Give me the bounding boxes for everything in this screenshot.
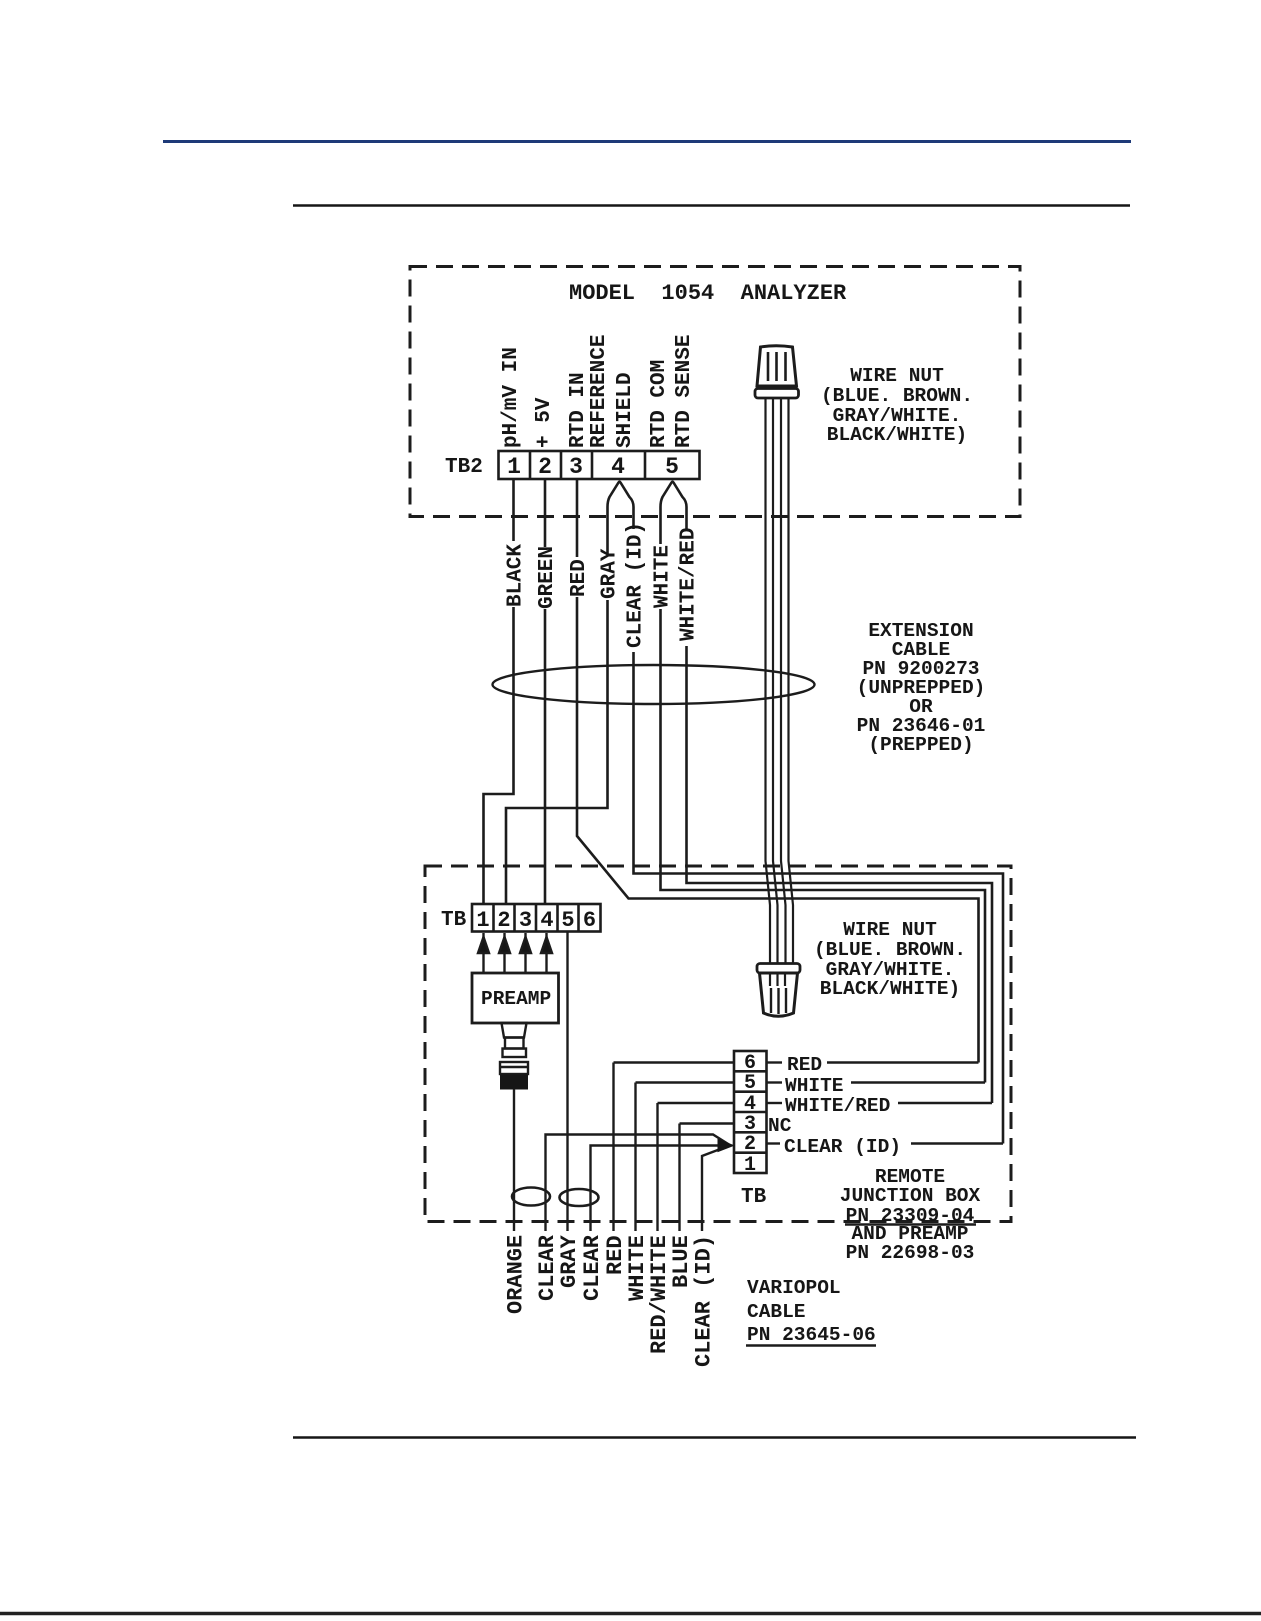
svg-text:(PREPPED): (PREPPED) [868, 734, 973, 756]
wire nut 2 text [814, 919, 966, 1000]
svg-text:TB: TB [741, 1186, 767, 1209]
svg-text:GRAY: GRAY [599, 548, 622, 599]
top blue rule [163, 140, 1131, 143]
underline PN 23645-06 [746, 1344, 876, 1346]
shield ellipse 1 [512, 1188, 550, 1206]
wire RED from TB2-3 [576, 479, 579, 557]
wire nut 2 (inverted) [757, 964, 800, 1017]
wire BLACK from TB2-1 [512, 479, 515, 541]
svg-text:3: 3 [519, 908, 532, 933]
top black rule [293, 204, 1130, 207]
svg-text:JUNCTION BOX: JUNCTION BOX [840, 1185, 981, 1207]
svg-text:RED: RED [787, 1054, 822, 1076]
wire GRAY [506, 600, 608, 904]
shield ellipse 2 [560, 1189, 599, 1206]
remote junction box text [840, 1166, 981, 1264]
svg-text:PN 22698-03: PN 22698-03 [846, 1242, 975, 1264]
TB2 pin numbers [507, 454, 679, 480]
row WHITE/RED (pin 4) [658, 1103, 993, 1231]
wires [484, 479, 1004, 1144]
row RED (pin 6) [614, 1063, 979, 1232]
svg-text:+ 5V: + 5V [533, 397, 556, 448]
svg-text:GRAY: GRAY [557, 1234, 582, 1288]
svg-text:ORANGE: ORANGE [504, 1235, 529, 1314]
terminal block TB2 [499, 451, 700, 479]
svg-text:GREEN: GREEN [536, 546, 559, 609]
svg-text:6: 6 [583, 908, 596, 933]
svg-text:1: 1 [476, 908, 489, 933]
svg-text:WHITE/RED: WHITE/RED [678, 528, 701, 641]
svg-text:5: 5 [665, 454, 679, 480]
junction box dashed border [425, 866, 1011, 1222]
wire nut 1 text [821, 365, 973, 446]
wire nut 1 cap [755, 346, 799, 398]
svg-text:BLUE: BLUE [669, 1235, 694, 1288]
svg-text:CLEAR: CLEAR [580, 1234, 605, 1301]
svg-text:CABLE: CABLE [747, 1301, 806, 1323]
BNC connector [500, 1023, 528, 1074]
svg-text:RTD IN: RTD IN [567, 372, 590, 448]
svg-text:RED: RED [568, 559, 591, 597]
svg-text:TB: TB [441, 909, 467, 932]
row WHITE (pin 5) [636, 1083, 986, 1232]
svg-text:WHITE/RED: WHITE/RED [785, 1095, 890, 1117]
svg-text:CLEAR (ID): CLEAR (ID) [784, 1136, 901, 1158]
svg-text:TB2: TB2 [445, 456, 483, 479]
remote TB pin numbers [744, 1052, 756, 1177]
svg-text:CLEAR (ID): CLEAR (ID) [692, 1235, 717, 1367]
svg-text:3: 3 [569, 454, 583, 480]
svg-text:WHITE: WHITE [652, 545, 675, 608]
svg-text:BLACK/WHITE): BLACK/WHITE) [827, 424, 967, 446]
svg-text:SHIELD: SHIELD [614, 372, 637, 448]
svg-text:(BLUE. BROWN.: (BLUE. BROWN. [821, 385, 973, 407]
preamp arrows [478, 933, 552, 973]
cable bundle ellipse [493, 665, 815, 704]
extension cable text [857, 620, 986, 756]
svg-text:RTD SENSE: RTD SENSE [673, 335, 696, 448]
svg-text:NC: NC [768, 1115, 792, 1137]
wire WHITE/RED [687, 646, 993, 1103]
wire ORANGE from BNC [513, 1089, 515, 1231]
svg-text:VARIOPOL: VARIOPOL [747, 1277, 841, 1299]
wire CLEAR (ID) [634, 652, 1004, 1144]
remote terminal block TB (vertical) [734, 1051, 767, 1173]
svg-text:CLEAR (ID): CLEAR (ID) [625, 522, 648, 648]
fork at TB2-5 [661, 482, 687, 544]
svg-text:PREAMP: PREAMP [481, 988, 551, 1010]
svg-text:1: 1 [507, 454, 521, 480]
svg-text:(BLUE. BROWN.: (BLUE. BROWN. [814, 939, 966, 961]
svg-text:REFERENCE: REFERENCE [588, 335, 611, 448]
extension cable (4 conductors) [766, 398, 794, 964]
page bottom edge [0, 1612, 1261, 1616]
svg-text:1: 1 [744, 1154, 756, 1177]
svg-text:4: 4 [611, 454, 625, 480]
svg-text:2: 2 [744, 1133, 756, 1156]
wire WHITE [661, 609, 986, 1083]
row CLEAR (ID) (pin 2) with arrow [546, 1135, 1004, 1232]
svg-text:WHITE: WHITE [785, 1075, 844, 1097]
terminal block TB (6 pins) [472, 904, 601, 932]
row NC (pin 3) [680, 1124, 735, 1232]
analyzer dashed box [410, 267, 1020, 517]
wire GREEN from TB2-2 [544, 479, 547, 547]
svg-text:2: 2 [538, 454, 552, 480]
svg-text:MODEL 1054 ANALYZER: MODEL 1054 ANALYZER [569, 281, 847, 306]
svg-text:2: 2 [497, 908, 510, 933]
svg-text:RTD COM: RTD COM [648, 360, 671, 448]
preamp U1 [472, 973, 559, 1023]
fork at TB2-4 [608, 482, 634, 554]
svg-text:5: 5 [561, 908, 574, 933]
svg-text:4: 4 [540, 908, 553, 933]
svg-text:WIRE NUT: WIRE NUT [843, 919, 937, 941]
svg-text:5: 5 [744, 1072, 756, 1095]
wire GRAY from TB-5 [566, 932, 568, 1232]
svg-text:BLACK: BLACK [505, 544, 528, 607]
underline PN 23309-04 [845, 1223, 976, 1225]
TB pin numbers [476, 908, 596, 933]
svg-text:WIRE NUT: WIRE NUT [850, 365, 944, 387]
svg-text:PN 23645-06: PN 23645-06 [747, 1324, 876, 1346]
svg-text:pH/mV IN: pH/mV IN [500, 347, 523, 448]
svg-text:BLACK/WHITE): BLACK/WHITE) [820, 978, 960, 1000]
bottom black rule [293, 1436, 1136, 1439]
